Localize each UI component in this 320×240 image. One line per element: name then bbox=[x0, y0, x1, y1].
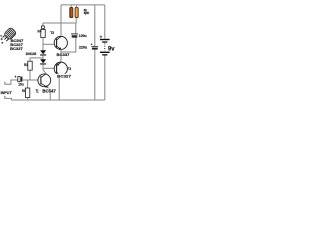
wire base node down to R3 bbox=[27, 80, 29, 88]
transistor T2 BC337 bbox=[54, 36, 67, 49]
wire T2 collector vertical bbox=[60, 5, 62, 37]
wire R3 to bottom rail bbox=[27, 98, 29, 101]
resistor R2 bbox=[28, 61, 32, 70]
label T1 BC547 bbox=[35, 88, 57, 92]
svg-text:BC337: BC337 bbox=[10, 46, 23, 51]
wire T1 emitter down bbox=[47, 87, 50, 100]
svg-text:+: + bbox=[100, 34, 103, 39]
wire output node to 100u bbox=[61, 38, 76, 52]
input terminal top bbox=[4, 80, 18, 84]
input terminal bottom bbox=[4, 97, 11, 101]
wire mid rail (R4 top / speaker return / 100u) bbox=[43, 22, 76, 24]
svg-text:T2: T2 bbox=[50, 31, 54, 35]
transistor T3 BC327 bbox=[54, 62, 67, 75]
capacitor C1 10u bbox=[14, 75, 22, 82]
top rail (+9v) bbox=[61, 4, 105, 6]
wire R4 to diode node bbox=[42, 38, 44, 51]
wire node to T3 base bbox=[43, 67, 57, 69]
wire 100u to mid rail bbox=[75, 23, 77, 34]
TO-92 package legend bbox=[0, 27, 16, 45]
label BC327 bbox=[57, 74, 72, 78]
speaker LS1 8R bbox=[70, 7, 79, 17]
svg-text:1N4148: 1N4148 bbox=[26, 52, 37, 56]
capacitor 100u bbox=[71, 34, 78, 38]
transistor T1 BC547 bbox=[38, 74, 51, 88]
svg-text:220u: 220u bbox=[79, 45, 88, 50]
wire cap to base node to T1 base bbox=[22, 79, 38, 81]
battery B1 9v bbox=[100, 5, 110, 100]
wire T3 collector down bbox=[58, 75, 60, 100]
svg-text:T1: T1 bbox=[36, 89, 39, 94]
svg-text:T3: T3 bbox=[68, 67, 71, 71]
resistor R4 bbox=[41, 29, 45, 37]
wire speaker left stub bbox=[70, 5, 72, 8]
label BC337 bbox=[56, 52, 70, 56]
resistor R3 bbox=[25, 88, 29, 98]
svg-text:BC547: BC547 bbox=[42, 89, 56, 94]
bottom rail (0v) bbox=[11, 99, 104, 101]
wire speaker right bottom stub bbox=[75, 18, 77, 23]
node: R4 top terminal circle bbox=[41, 26, 44, 29]
wire node to T2 base bbox=[43, 43, 57, 45]
svg-text:+: + bbox=[91, 43, 93, 47]
diode D1 1N4148 bbox=[40, 50, 46, 55]
svg-text:BC337: BC337 bbox=[57, 52, 71, 57]
svg-text:9v: 9v bbox=[108, 46, 115, 53]
svg-text:10u: 10u bbox=[18, 82, 24, 86]
wire between diodes bbox=[42, 55, 44, 59]
svg-text:R4: R4 bbox=[38, 29, 42, 34]
wire emitters junction bbox=[60, 49, 62, 62]
diode D2 1N4148 bbox=[40, 59, 46, 64]
svg-text:100u: 100u bbox=[79, 33, 87, 38]
svg-text:BC327: BC327 bbox=[57, 73, 72, 78]
wire R2 feedback bbox=[30, 58, 43, 61]
wire speaker right stub bbox=[75, 5, 77, 8]
svg-text:R3: R3 bbox=[22, 88, 26, 93]
svg-text:spkr: spkr bbox=[84, 11, 90, 15]
capacitor 220u bbox=[91, 43, 98, 50]
wire 220u vertical bbox=[94, 5, 96, 46]
svg-text:INPUT: INPUT bbox=[1, 90, 13, 95]
wire R2 bottom to base node bbox=[29, 70, 31, 80]
wire D2 to T1 collector bbox=[43, 64, 46, 73]
svg-text:R2: R2 bbox=[24, 62, 28, 67]
svg-text:+: + bbox=[14, 75, 16, 79]
